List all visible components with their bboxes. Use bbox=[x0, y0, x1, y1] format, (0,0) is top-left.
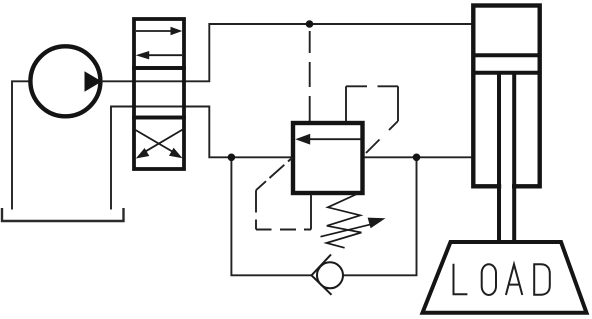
label LOAD letter O bbox=[482, 264, 496, 295]
junction dot main line left bbox=[228, 154, 236, 162]
pilot dashed line bottom-left of CB1 bbox=[256, 158, 311, 230]
cylinder C1 body bbox=[473, 6, 539, 187]
valve V1 top box arrow left bbox=[136, 51, 182, 59]
gap in cylinder bottom for rod bbox=[501, 183, 512, 191]
wire valve return to tank bbox=[111, 107, 134, 210]
cylinder C1 rod bbox=[499, 73, 514, 243]
junction dot main line right bbox=[413, 154, 421, 162]
label LOAD letter L bbox=[454, 264, 468, 295]
adjustment arrow through spring bbox=[321, 218, 386, 237]
cylinder C1 piston bbox=[473, 55, 539, 72]
valve V1 top box arrow right bbox=[136, 27, 182, 35]
counterbalance valve CB1 body bbox=[293, 123, 363, 193]
valve V1 bottom box crossed arrow B bbox=[136, 129, 185, 159]
label LOAD letter A bbox=[506, 264, 522, 295]
label LOAD letter D bbox=[533, 264, 550, 295]
valve V1 bottom box crossed arrow A bbox=[134, 129, 183, 158]
junction dot top line bbox=[306, 20, 314, 28]
pilot dashed line top-right of CB1 bbox=[346, 86, 398, 153]
wire left branch down to check valve bbox=[231, 157, 311, 275]
counterbalance valve CB1 flow arrow bbox=[295, 134, 361, 145]
check valve CV1 bbox=[312, 255, 344, 295]
load weight W bbox=[423, 242, 587, 313]
directional valve V1 body (3 position) bbox=[134, 19, 184, 169]
wire pump suction to tank bbox=[12, 81, 29, 209]
spring of CB1 bbox=[326, 194, 361, 248]
pilot dashed line from top junction to counterbalance valve bbox=[309, 31, 311, 121]
wire main line to cylinder cap end bbox=[363, 156, 474, 158]
wire pump outlet through valve to top line bbox=[101, 24, 474, 81]
wire right branch down to check valve bbox=[343, 157, 417, 275]
pump P1 bbox=[30, 46, 101, 116]
tank T1 bbox=[2, 208, 124, 221]
wire valve port B to main line bbox=[134, 107, 293, 158]
